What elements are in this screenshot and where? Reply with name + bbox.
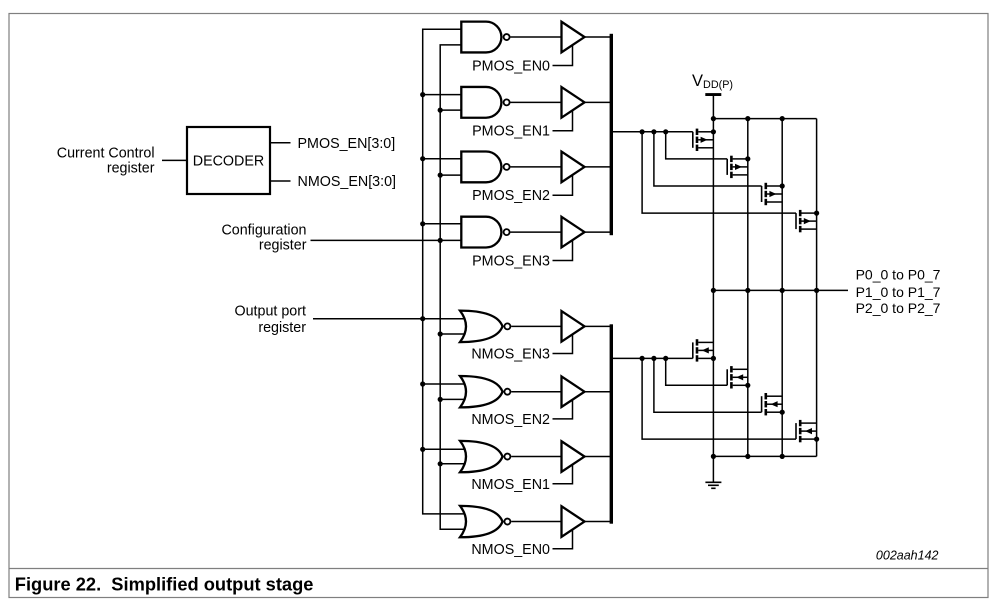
wire: PMOS gate feed from bar	[611, 131, 693, 133]
svg-text:Configuration: Configuration	[221, 223, 306, 239]
wire: buffer output to NMOS summing bar	[585, 325, 612, 327]
wire: bus A to NOR input at y=449.3	[423, 448, 464, 450]
junction on bus A	[420, 381, 425, 386]
wire: PMOS gate feed to Q3	[654, 132, 762, 186]
wire: column 2 vertical	[747, 119, 749, 457]
transistor Q8 (NMOS)	[796, 420, 817, 442]
junction: Q4 source node	[814, 211, 819, 216]
wire: buffer output to PMOS summing bar	[585, 231, 612, 233]
NMOS summing bar	[610, 324, 613, 523]
junction: configuration wire on bus B	[438, 238, 443, 243]
svg-text:PMOS_EN0: PMOS_EN0	[472, 58, 550, 74]
junction: Q7 source node	[780, 410, 785, 415]
junction: Q1 source node	[711, 129, 716, 134]
wire: NOR NMOS_EN1 output to buffer	[511, 456, 561, 458]
wire: PMOS_EN1 label to buffer	[553, 111, 573, 131]
junction on VDD rail	[745, 116, 750, 121]
junction on bus A	[420, 92, 425, 97]
junction on ground rail	[711, 454, 716, 459]
NAND PMOS_EN0 output bubble	[504, 34, 510, 40]
junction on bus A	[420, 221, 425, 226]
NOR NMOS_EN3 output bubble	[504, 323, 510, 329]
wire: NAND PMOS_EN2 output to buffer	[510, 166, 561, 168]
NAND PMOS_EN1 output bubble	[504, 99, 510, 105]
junction on bus B	[438, 461, 443, 466]
wire: ground rail	[713, 455, 816, 457]
wire: bus B to NAND input at y=175.1	[440, 174, 461, 176]
svg-text:register: register	[258, 320, 306, 336]
buffer for PMOS_EN1	[562, 87, 585, 118]
supply bar VDD(P)	[705, 93, 721, 96]
buffer for NMOS_EN2	[562, 376, 585, 407]
wire: Configuration register to NAND PMOS_EN3 input	[311, 239, 462, 241]
PMOS summing bar	[610, 34, 613, 235]
wire: column 1 vertical (VDD stem to ground symbol)	[712, 119, 714, 482]
junction: Q8 source node	[814, 437, 819, 442]
NOR gate NMOS_EN0	[460, 506, 503, 537]
wire: buffer output to NMOS summing bar	[585, 456, 612, 458]
svg-text:NMOS_EN[3:0]: NMOS_EN[3:0]	[298, 174, 397, 190]
NAND gate PMOS_EN2	[461, 152, 501, 183]
junction on PMOS gate feed	[640, 129, 645, 134]
buffer for NMOS_EN0	[562, 506, 585, 537]
svg-text:NMOS_EN1: NMOS_EN1	[471, 477, 550, 493]
svg-text:PMOS_EN3: PMOS_EN3	[472, 253, 550, 269]
junction: Q2 source node	[745, 156, 750, 161]
buffer for NMOS_EN3	[562, 311, 585, 342]
NAND PMOS_EN3 output bubble	[504, 229, 510, 235]
svg-text:P0_0 to P0_7: P0_0 to P0_7	[856, 266, 941, 282]
junction on ground rail	[780, 454, 785, 459]
junction on PMOS gate feed	[663, 129, 668, 134]
wire: buffer output to PMOS summing bar	[585, 101, 612, 103]
wire: NMOS_EN1 label to buffer	[553, 465, 573, 484]
junction on VDD rail	[711, 116, 716, 121]
wire: PMOS_EN2 label to buffer	[553, 175, 573, 195]
junction on bus B	[438, 397, 443, 402]
svg-text:P1_0 to P1_7: P1_0 to P1_7	[856, 284, 941, 300]
junction: Q6 source node	[745, 383, 750, 388]
svg-text:VDD(P): VDD(P)	[692, 72, 733, 91]
junction on bus B	[438, 331, 443, 336]
transistor Q1 (PMOS)	[693, 129, 714, 151]
wire: bus B (configuration)	[440, 45, 464, 529]
svg-text:NMOS_EN0: NMOS_EN0	[471, 542, 550, 558]
caption divider line	[9, 568, 988, 570]
wire: NAND PMOS_EN0 output to buffer	[510, 36, 561, 38]
wire: Current Control register to decoder	[162, 159, 187, 161]
wire: VDD rail	[713, 118, 816, 120]
junction on VDD rail	[780, 116, 785, 121]
junction on bus B	[438, 173, 443, 178]
junction on bus B	[438, 108, 443, 113]
buffer for PMOS_EN2	[562, 152, 585, 183]
junction: Q3 source node	[780, 183, 785, 188]
wire: PMOS_EN[3:0] decoder output	[270, 142, 291, 144]
svg-text:register: register	[259, 238, 307, 254]
NOR NMOS_EN1 output bubble	[504, 454, 510, 460]
junction: output port wire on bus A	[420, 316, 425, 321]
svg-text:Figure 22. Simplified output: Figure 22. Simplified output stage	[15, 574, 314, 595]
svg-text:NMOS_EN3: NMOS_EN3	[471, 347, 550, 363]
junction on ground rail	[745, 454, 750, 459]
wire: PMOS_EN3 label to buffer	[553, 240, 573, 260]
junction on output bus	[711, 288, 716, 293]
NAND gate PMOS_EN1	[461, 87, 501, 118]
wire: NMOS gate feed to Q7	[654, 358, 762, 412]
junction on NMOS gate feed	[663, 356, 668, 361]
transistor Q5 (NMOS)	[693, 339, 714, 361]
junction on output bus	[745, 288, 750, 293]
wire: NMOS gate feed to Q8	[642, 358, 796, 439]
junction on output bus	[780, 288, 785, 293]
transistor Q6 (NMOS)	[727, 366, 748, 388]
svg-text:Output port: Output port	[234, 303, 306, 319]
wire: bus B to NOR input at y=334.0	[440, 333, 464, 335]
junction: Q5 source node	[711, 356, 716, 361]
junction on NMOS gate feed	[651, 356, 656, 361]
wire: output bus	[713, 289, 848, 291]
NOR gate NMOS_EN2	[460, 376, 503, 407]
wire: VDD stem	[712, 96, 714, 119]
wire: bus B to NOR input at y=463.8	[440, 463, 464, 465]
wire: NMOS_EN[3:0] decoder output	[270, 180, 291, 182]
buffer for NMOS_EN1	[562, 441, 585, 472]
wire: NMOS_EN3 label to buffer	[553, 335, 573, 354]
NAND gate PMOS_EN3	[461, 217, 501, 248]
buffer for PMOS_EN0	[562, 22, 585, 53]
junction on NMOS gate feed	[640, 356, 645, 361]
svg-text:DECODER: DECODER	[193, 154, 265, 170]
wire: buffer output to NMOS summing bar	[585, 391, 612, 393]
wire: NMOS_EN2 label to buffer	[553, 400, 573, 419]
wire: NOR NMOS_EN2 output to buffer	[511, 391, 561, 393]
svg-text:register: register	[107, 160, 155, 176]
wire: bus A to NAND input at y=94.6	[423, 94, 462, 96]
svg-text:Current Control: Current Control	[57, 146, 155, 162]
wire: column 3 vertical	[781, 119, 783, 457]
buffer for PMOS_EN3	[562, 217, 585, 248]
wire: NOR NMOS_EN3 output to buffer	[511, 325, 561, 327]
svg-text:PMOS_EN[3:0]: PMOS_EN[3:0]	[298, 136, 396, 152]
wire: bus A (output data)	[423, 29, 464, 514]
label: Configuration register	[221, 223, 306, 254]
wire: buffer output to PMOS summing bar	[585, 36, 612, 38]
svg-text:002aah142: 002aah142	[876, 549, 939, 563]
transistor Q2 (PMOS)	[727, 156, 748, 178]
NOR NMOS_EN2 output bubble	[504, 389, 510, 395]
wire: PMOS gate feed to Q4	[642, 132, 796, 213]
wire: Output port register to NOR NMOS_EN3 input	[313, 318, 464, 320]
transistor Q7 (NMOS)	[762, 393, 783, 415]
junction on PMOS gate feed	[651, 129, 656, 134]
wire: NAND PMOS_EN3 output to buffer	[510, 231, 561, 233]
junction on bus A	[420, 156, 425, 161]
label: Output port register	[234, 303, 306, 336]
wire: NAND PMOS_EN1 output to buffer	[510, 101, 561, 103]
wire: bus B to NAND input at y=110.1	[440, 109, 461, 111]
NOR gate NMOS_EN1	[460, 441, 503, 472]
ground	[705, 482, 721, 488]
svg-text:PMOS_EN2: PMOS_EN2	[472, 188, 550, 204]
NAND PMOS_EN2 output bubble	[504, 164, 510, 170]
wire: NOR NMOS_EN0 output to buffer	[511, 521, 561, 523]
transistor Q4 (PMOS)	[796, 210, 817, 232]
svg-text:P2_0 to P2_7: P2_0 to P2_7	[856, 300, 941, 316]
wire: bus A to NOR input at y=384.0	[423, 383, 464, 385]
junction on bus A	[420, 447, 425, 452]
junction on output bus	[814, 288, 819, 293]
wire: NMOS gate feed from bar	[611, 357, 693, 359]
wire: buffer output to NMOS summing bar	[585, 521, 612, 523]
wire: bus B to NOR input at y=399.4	[440, 398, 464, 400]
svg-text:NMOS_EN2: NMOS_EN2	[471, 412, 550, 428]
wire: NMOS gate feed to Q6	[666, 358, 728, 385]
wire: column 4 vertical	[816, 119, 818, 457]
decoder U1	[187, 127, 270, 194]
wire: bus A to NAND input at y=158.7	[423, 158, 462, 160]
wire: PMOS_EN0 label to buffer	[553, 45, 573, 65]
svg-text:PMOS_EN1: PMOS_EN1	[472, 124, 550, 140]
NAND gate PMOS_EN0	[461, 22, 501, 53]
NOR NMOS_EN0 output bubble	[504, 519, 510, 525]
wire: bus A to NAND input at y=223.8	[423, 223, 462, 225]
wire: PMOS gate feed to Q2	[666, 132, 728, 159]
label: Current Control register	[57, 146, 155, 177]
wire: buffer output to PMOS summing bar	[585, 166, 612, 168]
NOR gate NMOS_EN3	[460, 311, 503, 342]
wire: NMOS_EN0 label to buffer	[553, 530, 573, 549]
transistor Q3 (PMOS)	[762, 183, 783, 205]
